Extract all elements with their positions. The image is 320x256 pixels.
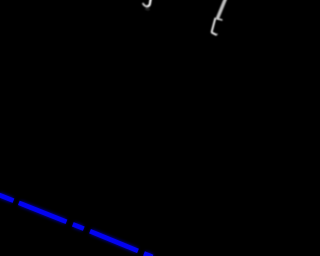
main rod [217, 0, 225, 19]
gray rod with hook top-right [217, 0, 225, 19]
small gray J-hook top-left [143, 0, 151, 9]
blue dashed line core [0, 195, 153, 256]
nub to the right [217, 19, 222, 20]
blue dashed line glow [0, 195, 153, 256]
faint tip flick [216, 33, 219, 36]
thin shank down and foot [212, 18, 217, 35]
